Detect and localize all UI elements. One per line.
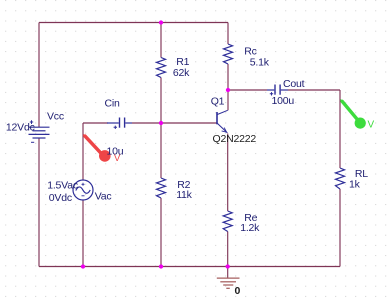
svg-text:Q2N2222: Q2N2222	[213, 133, 257, 145]
svg-text:Vac: Vac	[95, 191, 112, 203]
svg-text:100u: 100u	[272, 95, 295, 107]
svg-text:Cout: Cout	[283, 78, 305, 90]
svg-text:10u: 10u	[107, 146, 124, 158]
svg-text:1.5Vac: 1.5Vac	[47, 180, 78, 192]
svg-text:12Vdc: 12Vdc	[6, 122, 35, 134]
svg-text:5.1k: 5.1k	[250, 57, 270, 69]
svg-text:1.2k: 1.2k	[240, 222, 260, 234]
svg-text:Q1: Q1	[211, 95, 225, 107]
svg-text:0: 0	[235, 285, 241, 297]
svg-text:0Vdc: 0Vdc	[49, 192, 72, 204]
svg-text:11k: 11k	[176, 189, 192, 201]
svg-text:Vcc: Vcc	[47, 111, 64, 123]
svg-text:62k: 62k	[173, 67, 190, 79]
svg-text:1k: 1k	[349, 179, 361, 191]
svg-text:Cin: Cin	[105, 98, 121, 110]
svg-text:Rc: Rc	[244, 45, 256, 57]
svg-text:V: V	[368, 120, 375, 131]
